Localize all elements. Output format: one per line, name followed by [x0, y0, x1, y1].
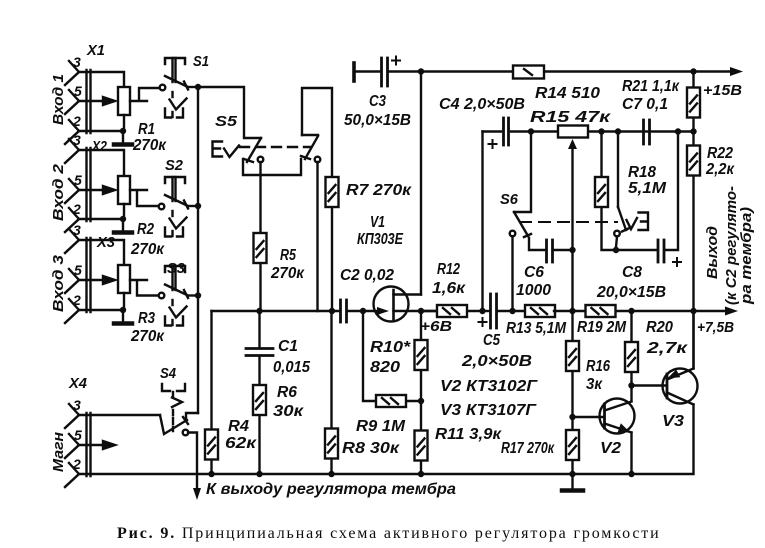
svg-text:С4 2,0×50В: С4 2,0×50В	[439, 96, 525, 113]
wire X3 pin3 to R3 top	[79, 240, 124, 265]
arrow to tone control output	[193, 488, 201, 500]
resistor R18	[595, 132, 616, 251]
resistor R21	[687, 72, 700, 132]
node C4 / R15 left	[528, 128, 534, 134]
svg-text:2: 2	[72, 201, 81, 217]
svg-text:5,1М: 5,1М	[628, 180, 667, 197]
node R20 bottom / V3 base	[628, 382, 634, 388]
wire X2 pin2	[79, 218, 123, 220]
wire X1 pin3 to R1 top	[79, 72, 124, 87]
svg-text:R15 47к: R15 47к	[530, 109, 612, 126]
wire X3 pin5 arrow	[79, 276, 115, 284]
node S2 output	[195, 203, 201, 209]
svg-text:R21 1,1к: R21 1,1к	[622, 78, 680, 95]
svg-text:R2: R2	[137, 221, 154, 238]
wire X2 pin5 arrow	[79, 186, 115, 194]
node R21 bottom row	[690, 128, 696, 134]
svg-text:S3: S3	[167, 260, 186, 277]
switch S6 right pole	[614, 132, 648, 248]
svg-text:С8: С8	[622, 264, 642, 281]
connector X4	[65, 404, 91, 487]
svg-text:62к: 62к	[225, 435, 257, 452]
svg-text:S5: S5	[215, 113, 238, 130]
svg-text:S2: S2	[165, 157, 184, 174]
arrow +7,5В	[725, 307, 738, 316]
svg-text:5: 5	[74, 427, 82, 443]
svg-text:R10*: R10*	[370, 339, 411, 356]
svg-text:Вход 1: Вход 1	[50, 74, 67, 125]
svg-text:X2: X2	[91, 138, 107, 155]
svg-text:270к: 270к	[270, 265, 305, 282]
node R9 / R10 / R11	[418, 398, 424, 404]
R15 wiper arrow	[568, 139, 577, 311]
svg-text:+7,5В: +7,5В	[697, 319, 734, 336]
svg-text:5: 5	[74, 83, 82, 99]
svg-text:КП303Е: КП303Е	[357, 231, 404, 248]
node C8 wire / S6 right contact	[613, 247, 619, 253]
svg-text:R8 30к: R8 30к	[342, 440, 400, 457]
resistor R5	[254, 162, 267, 311]
potentiometer R3	[118, 265, 158, 310]
svg-text:S6: S6	[500, 191, 519, 208]
resistor R17	[566, 430, 579, 474]
svg-text:2,7к: 2,7к	[646, 340, 689, 357]
svg-text:С6: С6	[524, 264, 544, 281]
svg-text:V3: V3	[662, 413, 684, 430]
wire X3 pin2	[79, 309, 123, 311]
capacitor C7	[644, 120, 650, 144]
svg-text:R11 3,9к: R11 3,9к	[435, 426, 502, 443]
node R18 top	[598, 128, 604, 134]
svg-text:3к: 3к	[586, 376, 603, 393]
+15V top rail	[421, 70, 732, 72]
capacitor C3	[354, 57, 421, 87]
node R22 bottom / V3 emitter	[690, 308, 696, 314]
svg-text:50,0×15В: 50,0×15В	[344, 112, 411, 129]
bus wire from switches S1-S3 down to S4	[197, 87, 199, 413]
svg-text:20,0×15В: 20,0×15В	[596, 284, 666, 301]
node C4 branch / C5	[479, 308, 485, 314]
node X1 pin2 junction	[120, 128, 126, 134]
node S1 output	[195, 84, 201, 90]
svg-text:С2 0,02: С2 0,02	[340, 267, 394, 284]
transistor V1	[374, 287, 439, 322]
potentiometer R15	[558, 126, 588, 138]
connector X3	[65, 229, 91, 323]
node V1 source	[418, 308, 424, 314]
svg-text:3: 3	[73, 54, 81, 70]
svg-text:R5: R5	[280, 247, 296, 264]
resistor R14	[513, 66, 544, 79]
node X3 pin2 junction	[120, 307, 126, 313]
wire X4 pin5 arrow	[79, 441, 115, 449]
svg-text:5: 5	[74, 172, 82, 188]
svg-text:X4: X4	[68, 375, 88, 392]
svg-text:ра тембра): ра тембра)	[738, 207, 755, 305]
S6 link dashed line	[520, 221, 617, 223]
svg-text:270к: 270к	[130, 328, 165, 345]
wire X1 pin5 arrow	[79, 97, 115, 105]
svg-text:Вход 2: Вход 2	[50, 163, 67, 221]
chassis ground at X1	[114, 131, 132, 145]
svg-text:2,2к: 2,2к	[705, 161, 735, 178]
svg-text:R9 1М: R9 1М	[356, 418, 406, 435]
node R20 top	[628, 308, 634, 314]
svg-text:+6В: +6В	[420, 318, 452, 335]
resistor R12	[421, 305, 482, 317]
svg-text:2: 2	[72, 292, 81, 308]
svg-text:R13 5,1М: R13 5,1М	[506, 320, 567, 337]
capacitor C1	[246, 311, 273, 386]
resistor R7	[302, 88, 339, 311]
svg-text:Вход 3: Вход 3	[50, 254, 67, 312]
connector X2	[65, 139, 91, 232]
wire X4 pin3 to S4	[79, 414, 160, 416]
switch S2	[159, 177, 198, 237]
arrow +15В	[730, 67, 743, 76]
svg-text:5: 5	[74, 262, 82, 278]
svg-text:С3: С3	[369, 93, 386, 110]
resistor R6	[253, 385, 266, 474]
svg-text:R3: R3	[138, 310, 155, 327]
transistor V2	[573, 399, 635, 475]
node R11 bottom	[418, 471, 424, 477]
resistor R13	[525, 305, 555, 317]
switch S4	[160, 384, 198, 489]
svg-text:X1: X1	[86, 42, 105, 59]
chassis ground at X3	[114, 310, 132, 324]
svg-text:R17 270к: R17 270к	[501, 440, 555, 457]
node R17 bottom / ground	[569, 471, 575, 477]
resistor R8	[325, 311, 338, 474]
svg-text:С1: С1	[278, 338, 298, 355]
resistor R22	[687, 132, 700, 368]
transistor V3	[632, 311, 698, 474]
capacitor C8	[616, 132, 681, 267]
node S3 output	[195, 292, 201, 298]
wire row R15/C7	[531, 130, 694, 132]
resistor R4	[205, 311, 218, 474]
node R7 bottom / C2	[329, 308, 335, 314]
svg-text:R6: R6	[277, 384, 297, 401]
resistor R10	[415, 311, 428, 401]
node rail / R21	[690, 68, 696, 74]
svg-text:X3: X3	[96, 234, 116, 251]
svg-text:R12: R12	[437, 261, 460, 278]
capacitor C6	[547, 240, 573, 262]
svg-text:R4: R4	[228, 418, 249, 435]
resistor R19	[586, 305, 616, 317]
transistor V1 gate arrow	[377, 307, 389, 315]
svg-text:V3 КТ3107Г: V3 КТ3107Г	[440, 402, 538, 419]
svg-text:270к: 270к	[132, 137, 167, 154]
svg-text:Рис. 9. Принципиальная схем: Рис. 9. Принципиальная схема активного р…	[117, 525, 661, 542]
node rail / V1 drain	[418, 68, 424, 74]
wire X1 pin2	[79, 130, 123, 132]
switch S1	[160, 58, 198, 118]
svg-text:2: 2	[72, 456, 81, 472]
svg-text:R22: R22	[707, 145, 733, 162]
svg-text:С5: С5	[483, 332, 500, 349]
wire R19 to +7,5В arrow	[616, 310, 727, 312]
node V2 emitter bottom	[628, 471, 634, 477]
ground symbol	[562, 474, 583, 491]
node R8 bottom	[328, 471, 334, 477]
wire S1 node to S5 left pole	[198, 87, 261, 138]
node C6 / R15 wiper	[569, 247, 575, 253]
wire V1 drain to +15V rail	[420, 72, 422, 295]
node R6 bottom	[256, 471, 262, 477]
svg-text:3: 3	[73, 397, 81, 413]
svg-text:С7 0,1: С7 0,1	[622, 96, 668, 113]
bottom common rail	[79, 473, 632, 475]
svg-text:S4: S4	[160, 365, 177, 382]
capacitor C4	[483, 118, 532, 311]
V2 emitter arrow	[618, 423, 631, 433]
svg-text:2: 2	[72, 113, 81, 129]
svg-text:30к: 30к	[273, 403, 304, 420]
resistor R11	[415, 401, 428, 474]
svg-text:R16: R16	[586, 358, 610, 375]
svg-text:3: 3	[73, 222, 81, 238]
node R5 bottom	[256, 308, 262, 314]
svg-text:1000: 1000	[516, 282, 551, 299]
svg-text:V1: V1	[370, 214, 385, 231]
V3 emitter arrow	[668, 370, 681, 379]
svg-text:К выходу регулятора тембра: К выходу регулятора тембра	[206, 481, 456, 498]
svg-text:R14 510: R14 510	[535, 85, 600, 102]
wire R13 to R19	[554, 310, 585, 312]
node R16 / R17 / V2 base	[569, 414, 575, 420]
potentiometer R2	[118, 176, 158, 219]
capacitor C2	[332, 300, 377, 322]
wire middle row +6В to +7,5В	[483, 310, 490, 312]
resistor R9	[363, 311, 421, 407]
svg-text:3: 3	[73, 132, 81, 148]
svg-text:R18: R18	[628, 164, 656, 181]
svg-text:V2: V2	[600, 440, 621, 457]
connector X1	[65, 61, 91, 144]
svg-text:R20: R20	[646, 319, 673, 336]
svg-text:R7 270к: R7 270к	[346, 182, 412, 199]
potentiometer R1	[118, 87, 159, 131]
chassis ground at X2	[114, 219, 132, 233]
node gate / R9	[360, 308, 366, 314]
switch S5	[213, 135, 321, 175]
svg-text:2,0×50В: 2,0×50В	[461, 353, 532, 370]
svg-text:1,6к: 1,6к	[432, 280, 466, 297]
svg-text:R19 2М: R19 2М	[577, 319, 627, 336]
svg-text:270к: 270к	[130, 241, 165, 258]
node C8 riser / row	[675, 128, 681, 134]
svg-text:V2 КТ3102Г: V2 КТ3102Г	[440, 378, 539, 395]
wire S5 right contact down	[316, 162, 318, 311]
svg-text:Выход: Выход	[704, 226, 721, 279]
wire X2 pin3 to R2 top	[79, 150, 124, 176]
svg-text:+15В: +15В	[703, 82, 742, 99]
node S6 left branch	[509, 308, 515, 314]
svg-text:S1: S1	[193, 53, 209, 70]
node R15 wiper / R16	[569, 308, 575, 314]
svg-text:R1: R1	[138, 121, 155, 138]
resistor R20	[625, 311, 638, 401]
switch S3	[159, 266, 198, 326]
wire node row left (R5 bottom to C2)	[212, 310, 333, 312]
capacitor C5	[479, 294, 527, 328]
node R4 bottom	[208, 471, 214, 477]
svg-text:Магн: Магн	[50, 432, 67, 472]
node X2 pin2 junction	[120, 216, 126, 222]
svg-text:0,015: 0,015	[273, 359, 310, 376]
svg-text:820: 820	[370, 359, 400, 376]
switch S6 left pole	[510, 132, 545, 312]
node S6 right top	[615, 128, 621, 134]
resistor R16	[566, 311, 579, 430]
